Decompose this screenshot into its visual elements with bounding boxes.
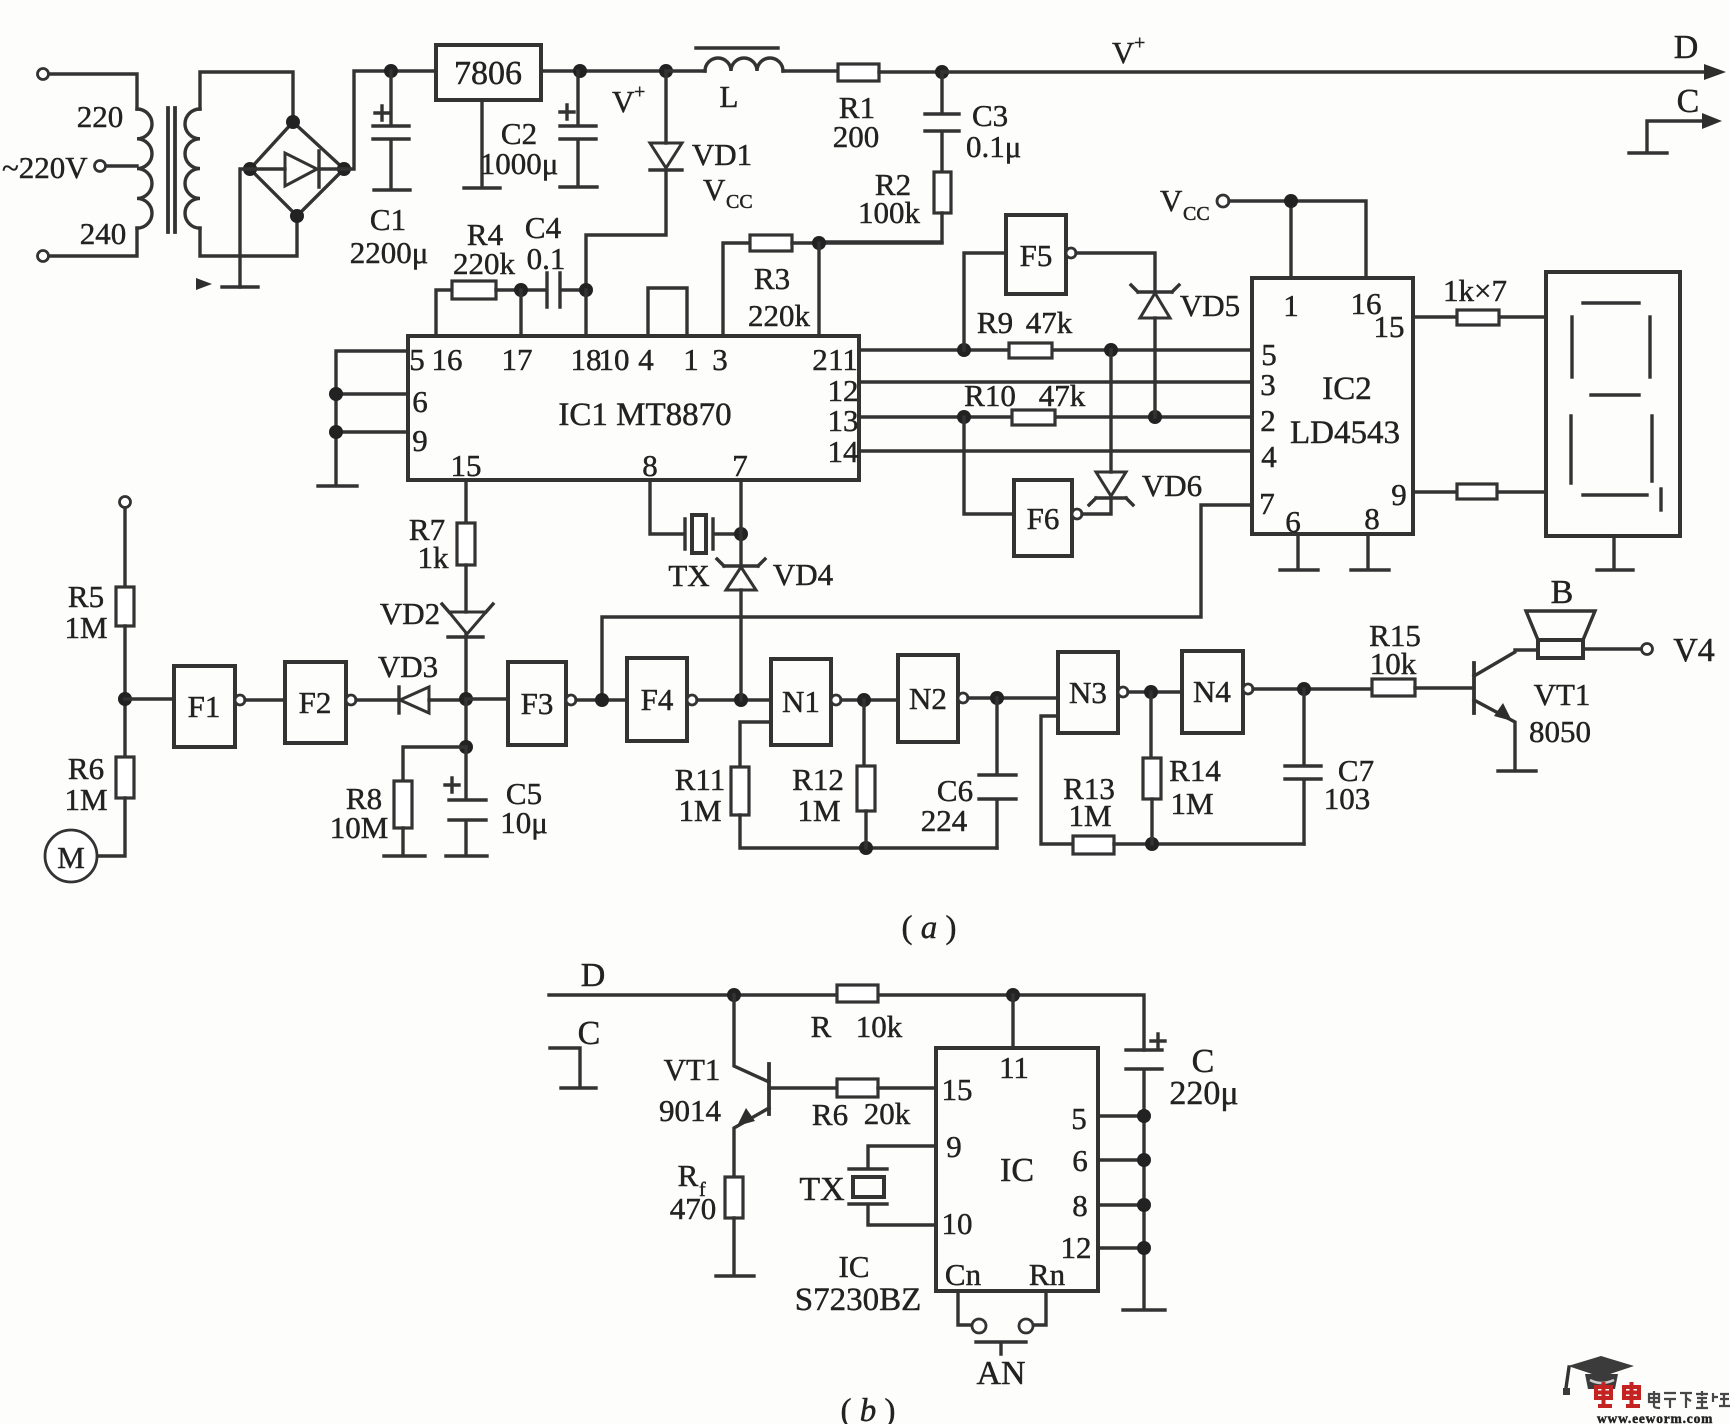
svg-text:( b ): ( b ): [841, 1393, 896, 1424]
svg-text:F1: F1: [188, 689, 221, 724]
svg-text:CC: CC: [1183, 203, 1210, 225]
svg-text:1M: 1M: [1170, 786, 1213, 821]
svg-text:1k: 1k: [418, 540, 450, 575]
svg-text:220μ: 220μ: [1169, 1075, 1238, 1112]
svg-text:C1: C1: [370, 202, 406, 237]
svg-text:5: 5: [409, 342, 425, 377]
svg-text:2: 2: [1260, 403, 1276, 438]
svg-text:+: +: [1134, 32, 1145, 54]
svg-text:220k: 220k: [748, 298, 811, 333]
svg-text:0.1μ: 0.1μ: [966, 129, 1021, 164]
svg-text:VD3: VD3: [378, 649, 438, 684]
svg-text:18: 18: [571, 342, 602, 377]
svg-text:240: 240: [80, 216, 127, 251]
svg-text:IC: IC: [1000, 1152, 1034, 1189]
svg-text:11: 11: [828, 342, 858, 377]
svg-text:F6: F6: [1027, 501, 1060, 536]
svg-text:Cn: Cn: [945, 1257, 982, 1292]
svg-text:1k×7: 1k×7: [1443, 273, 1507, 308]
svg-text:R12: R12: [792, 762, 844, 797]
svg-text:10M: 10M: [330, 810, 389, 845]
svg-text:VD4: VD4: [773, 557, 834, 592]
svg-text:AN: AN: [976, 1355, 1025, 1392]
svg-text:7: 7: [1259, 486, 1275, 521]
svg-text:R6: R6: [812, 1097, 848, 1132]
svg-text:7: 7: [732, 448, 748, 483]
svg-text:220: 220: [77, 99, 124, 134]
svg-text:13: 13: [828, 403, 859, 438]
svg-text:10: 10: [942, 1206, 973, 1241]
svg-text:TX: TX: [799, 1171, 844, 1208]
svg-text:F4: F4: [641, 682, 674, 717]
svg-text:8: 8: [642, 448, 658, 483]
svg-text:VD2: VD2: [380, 596, 440, 631]
svg-text:IC2: IC2: [1322, 371, 1372, 407]
svg-text:VT1: VT1: [664, 1052, 721, 1087]
svg-text:47k: 47k: [1039, 378, 1086, 413]
svg-text:5: 5: [1071, 1101, 1087, 1136]
svg-text:F2: F2: [299, 685, 332, 720]
svg-text:9: 9: [1391, 477, 1407, 512]
svg-text:D: D: [581, 957, 606, 994]
svg-text:IC1 MT8870: IC1 MT8870: [558, 397, 731, 433]
svg-text:C4: C4: [525, 210, 562, 245]
svg-text:224: 224: [921, 803, 968, 838]
svg-text:10k: 10k: [856, 1009, 903, 1044]
svg-text:N1: N1: [782, 684, 820, 719]
svg-text:V: V: [612, 84, 635, 119]
svg-text:V: V: [1112, 35, 1135, 70]
svg-text:L: L: [720, 79, 739, 114]
svg-text:11: 11: [999, 1050, 1029, 1085]
svg-text:1M: 1M: [64, 610, 107, 645]
svg-text:15: 15: [942, 1072, 973, 1107]
svg-text:10: 10: [599, 342, 630, 377]
svg-text:14: 14: [828, 434, 860, 469]
svg-text:1M: 1M: [678, 793, 721, 828]
svg-text:S7230BZ: S7230BZ: [795, 1282, 922, 1318]
svg-text:1000μ: 1000μ: [480, 146, 559, 181]
svg-text:16: 16: [432, 342, 463, 377]
svg-text:R: R: [678, 1158, 699, 1193]
svg-text:( a ): ( a ): [902, 910, 957, 946]
svg-text:R6: R6: [68, 751, 104, 786]
svg-text:N2: N2: [909, 681, 947, 716]
svg-text:~220V: ~220V: [2, 150, 88, 185]
svg-text:8050: 8050: [1529, 714, 1591, 749]
svg-text:100k: 100k: [858, 195, 921, 230]
svg-text:8: 8: [1364, 501, 1380, 536]
svg-text:17: 17: [502, 342, 533, 377]
svg-text:TX: TX: [668, 558, 709, 593]
svg-text:8: 8: [1072, 1188, 1088, 1223]
svg-text:N4: N4: [1193, 674, 1231, 709]
svg-text:6: 6: [1072, 1143, 1088, 1178]
svg-text:C3: C3: [972, 98, 1008, 133]
svg-text:C: C: [1677, 83, 1700, 120]
svg-text:4: 4: [1261, 439, 1277, 474]
svg-text:R5: R5: [68, 579, 104, 614]
svg-text:LD4543: LD4543: [1290, 415, 1400, 451]
svg-text:9014: 9014: [659, 1093, 722, 1128]
svg-text:R9: R9: [977, 305, 1013, 340]
svg-text:12: 12: [1061, 1230, 1092, 1265]
svg-text:www.eeworm.com: www.eeworm.com: [1597, 1411, 1713, 1424]
svg-text:+: +: [634, 81, 645, 103]
svg-text:103: 103: [1324, 781, 1371, 816]
svg-text:7806: 7806: [454, 55, 522, 92]
svg-text:200: 200: [833, 119, 880, 154]
svg-text:D: D: [1674, 29, 1699, 66]
svg-text:1: 1: [1283, 288, 1299, 323]
svg-text:3: 3: [1260, 367, 1276, 402]
svg-text:R10: R10: [964, 378, 1016, 413]
svg-text:220k: 220k: [453, 246, 516, 281]
svg-text:B: B: [1551, 574, 1574, 611]
svg-text:F3: F3: [521, 686, 554, 721]
svg-text:R: R: [811, 1009, 832, 1044]
svg-text:9: 9: [412, 423, 428, 458]
svg-text:15: 15: [451, 448, 482, 483]
svg-text:3: 3: [712, 342, 728, 377]
svg-text:V4: V4: [1673, 632, 1715, 669]
svg-text:F5: F5: [1020, 238, 1053, 273]
svg-text:V: V: [703, 172, 726, 207]
svg-text:V: V: [1160, 183, 1183, 218]
svg-text:IC: IC: [839, 1249, 870, 1284]
svg-text:470: 470: [670, 1191, 717, 1226]
svg-text:VD6: VD6: [1142, 468, 1202, 503]
svg-text:VD5: VD5: [1180, 288, 1240, 323]
svg-text:R14: R14: [1169, 753, 1221, 788]
svg-text:1M: 1M: [1068, 798, 1111, 833]
svg-text:VT1: VT1: [1534, 677, 1591, 712]
svg-text:1M: 1M: [797, 793, 840, 828]
svg-text:4: 4: [638, 342, 654, 377]
svg-text:6: 6: [412, 384, 428, 419]
svg-text:9: 9: [946, 1129, 962, 1164]
svg-text:15: 15: [1374, 309, 1405, 344]
svg-text:R11: R11: [675, 762, 726, 797]
svg-text:2200μ: 2200μ: [350, 235, 429, 270]
svg-text:1M: 1M: [64, 782, 107, 817]
svg-text:2: 2: [812, 342, 828, 377]
svg-text:20k: 20k: [864, 1096, 911, 1131]
svg-text:CC: CC: [726, 191, 753, 213]
svg-text:M: M: [57, 840, 85, 875]
svg-text:10μ: 10μ: [500, 805, 548, 840]
svg-text:0.1: 0.1: [527, 241, 566, 276]
svg-text:10k: 10k: [1370, 646, 1417, 681]
svg-text:1: 1: [683, 342, 699, 377]
svg-text:N3: N3: [1069, 675, 1107, 710]
svg-text:R3: R3: [754, 261, 790, 296]
svg-text:VD1: VD1: [692, 137, 752, 172]
svg-text:47k: 47k: [1026, 305, 1073, 340]
